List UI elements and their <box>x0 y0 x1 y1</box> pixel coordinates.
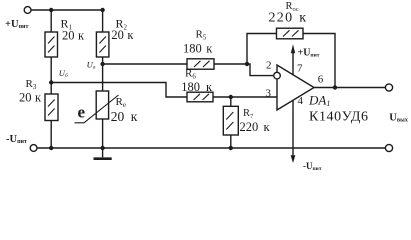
resistor R1 <box>45 32 58 57</box>
wire leg R2 top <box>102 10 104 32</box>
wire output pin 6 <box>314 87 385 89</box>
node inverting input junction <box>245 62 249 66</box>
terminal +Upit top-left <box>24 7 31 14</box>
svg-text:6: 6 <box>318 74 324 86</box>
resistor R2 <box>96 32 109 57</box>
svg-text:3: 3 <box>266 88 272 100</box>
node junction rail R7 <box>229 146 233 150</box>
svg-text:2: 2 <box>266 60 272 72</box>
svg-text:180к: 180к <box>183 42 213 56</box>
wire leg R3 bottom <box>50 121 52 149</box>
node junction top of R2 <box>100 8 104 12</box>
wire leg R2-Re middle <box>102 57 104 91</box>
wire top rail <box>31 9 103 11</box>
node junction top of R1 <box>49 8 53 12</box>
wire leg R1-R3 middle <box>50 57 52 94</box>
svg-text:20к: 20к <box>62 28 85 42</box>
resistor R6 180k <box>187 92 213 102</box>
svg-text:20к: 20к <box>19 90 42 104</box>
wire R6 to pin 3 <box>213 96 277 98</box>
wire feedback to output node <box>303 34 335 88</box>
pin 4 wire with -Upit arrow <box>291 100 296 163</box>
op-amp inverting bubble <box>274 72 281 79</box>
terminal output upper <box>385 84 392 91</box>
pin 7 wire with +Upit arrow <box>291 44 295 74</box>
node output junction <box>333 85 337 89</box>
node Ub junction <box>49 80 53 84</box>
terminal -Upit bottom-left <box>30 145 37 152</box>
svg-text:е: е <box>78 103 86 122</box>
svg-text:220к: 220к <box>240 120 271 134</box>
svg-text:180к: 180к <box>181 80 213 94</box>
svg-text:К140УД6: К140УД6 <box>309 110 368 125</box>
node Ua junction <box>100 62 104 66</box>
wire step to pin 2 <box>247 64 273 76</box>
svg-text:7: 7 <box>297 63 303 75</box>
terminal output lower <box>385 144 392 151</box>
op-amp DA1 triangle <box>277 65 314 110</box>
wire leg R1 top <box>50 10 52 32</box>
resistor Re (sensor) <box>75 91 119 123</box>
wire bottom rail <box>37 147 385 149</box>
wire feedback up from inverting node <box>247 34 277 65</box>
wire R5 to inverting node <box>214 63 247 65</box>
wire R7 bottom to rail <box>230 135 232 148</box>
svg-text:20к: 20к <box>111 28 134 42</box>
node junction rail R3 <box>49 146 53 150</box>
resistor R3 <box>45 94 58 121</box>
node junction rail Re/ground <box>100 146 104 150</box>
ground <box>94 148 112 159</box>
resistor Roc 220k feedback <box>277 28 304 39</box>
node pin3 junction <box>229 95 233 99</box>
wire leg Re bottom <box>102 119 104 148</box>
svg-text:20к: 20к <box>111 109 138 124</box>
svg-text:4: 4 <box>298 95 304 107</box>
resistor R5 180k <box>187 59 214 69</box>
wire node Ua to R5 <box>103 63 187 65</box>
wire node Ub to R6 <box>51 83 187 98</box>
wire pin3 node down to R7 <box>230 97 232 106</box>
resistor R7 220k <box>223 106 238 135</box>
svg-text:220к: 220к <box>269 11 307 26</box>
